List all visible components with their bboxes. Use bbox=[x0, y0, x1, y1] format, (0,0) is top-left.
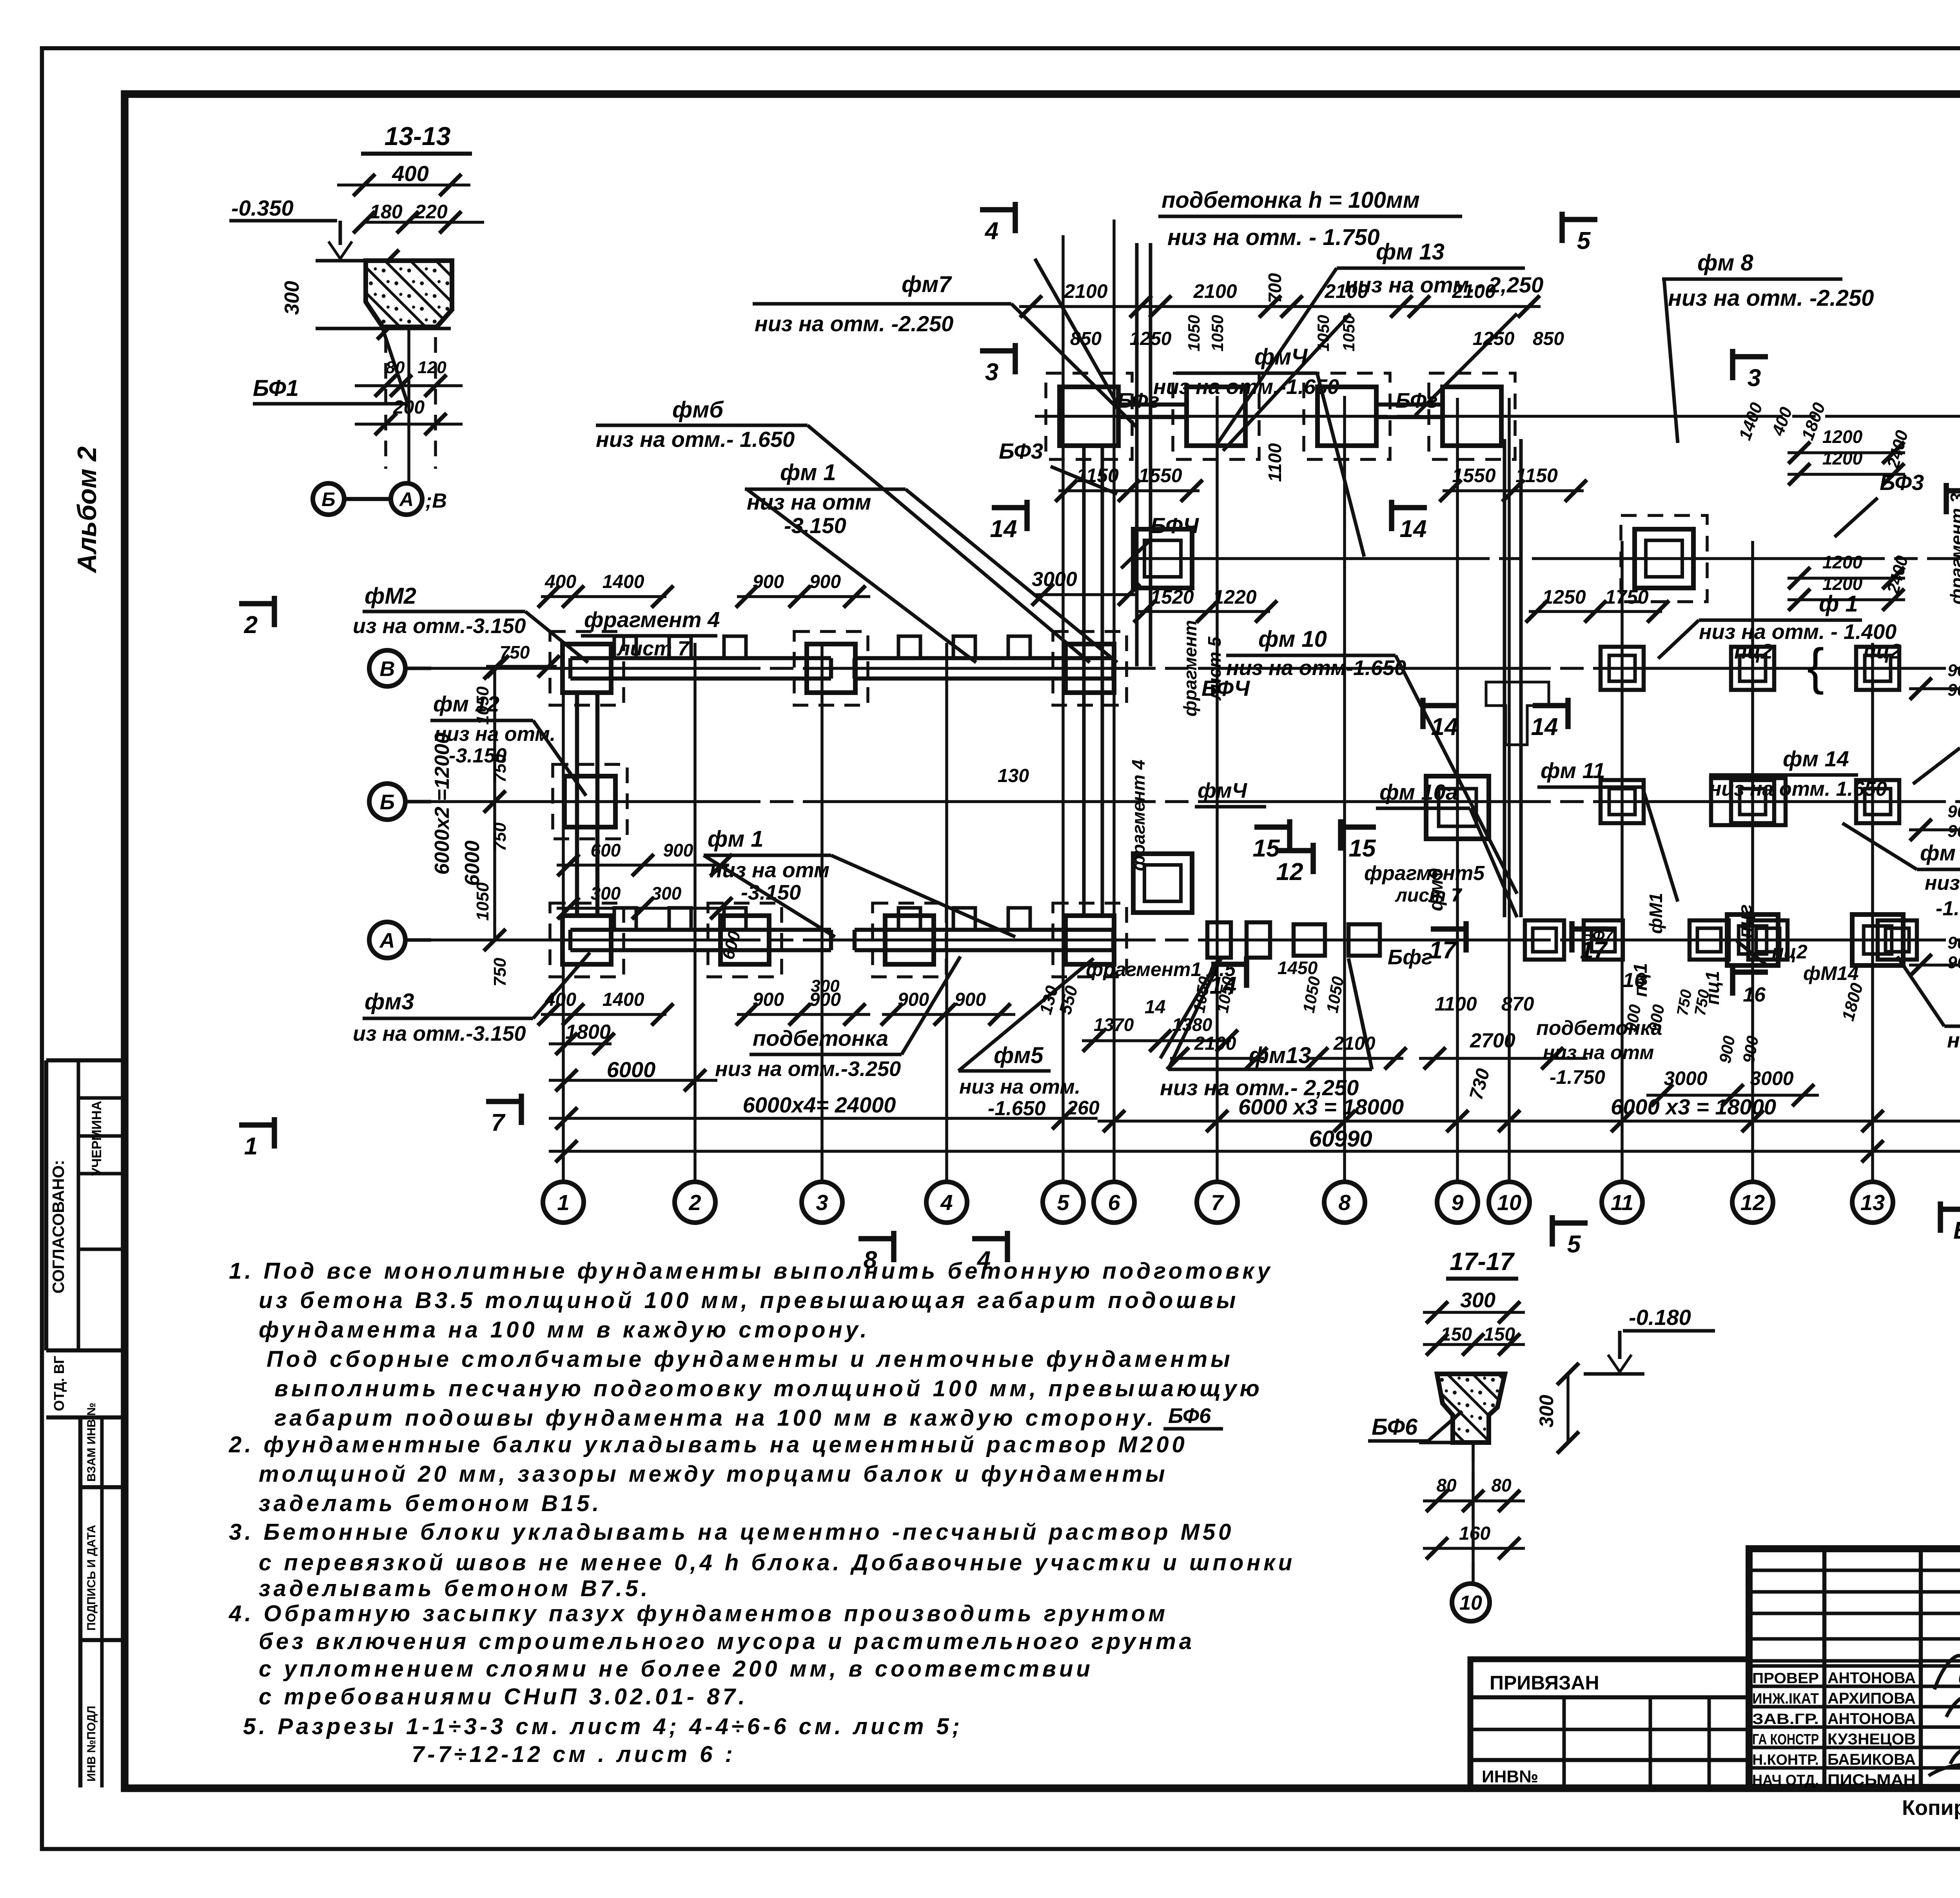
svg-text:фм 13: фм 13 bbox=[1376, 239, 1445, 265]
svg-text:160: 160 bbox=[1459, 1523, 1490, 1544]
svg-text:подбетонка: подбетонка bbox=[1536, 1017, 1662, 1040]
row Г squares bbox=[1133, 529, 1192, 588]
svg-text:750: 750 bbox=[490, 822, 510, 851]
svg-text:низ на отм.- 2,250: низ на отм.- 2,250 bbox=[1345, 272, 1543, 297]
svg-text:900: 900 bbox=[753, 989, 784, 1010]
svg-text:5: 5 bbox=[1567, 1231, 1581, 1258]
svg-text:3000: 3000 bbox=[1750, 1067, 1793, 1089]
svg-text:В: В bbox=[380, 657, 395, 680]
svg-text:с перевязкой швов не менее: с перевязкой швов не менее 0,4 h блока. … bbox=[259, 1550, 1295, 1575]
svg-text:лист 5: лист 5 bbox=[1204, 636, 1225, 701]
svg-text:1220: 1220 bbox=[1213, 586, 1256, 608]
svg-text:1050: 1050 bbox=[1314, 315, 1332, 351]
svg-text:заделывать бетоном В7.5.: заделывать бетоном В7.5. bbox=[259, 1576, 650, 1601]
svg-text:14: 14 bbox=[1210, 972, 1237, 999]
svg-text:низ на отм. -1.400: низ на отм. -1.400 bbox=[1947, 1029, 1960, 1052]
svg-text:УЧЕРМИНА: УЧЕРМИНА bbox=[89, 1101, 104, 1176]
column circles bbox=[543, 1182, 584, 1223]
svg-text:4: 4 bbox=[940, 1190, 953, 1215]
svg-text:ПИСЬМАН: ПИСЬМАН bbox=[1828, 1771, 1916, 1789]
svg-text:14: 14 bbox=[1531, 713, 1558, 740]
svg-text:БФ6: БФ6 bbox=[1168, 1404, 1211, 1428]
svg-text:пц2: пц2 bbox=[1863, 640, 1902, 663]
svg-text:1: 1 bbox=[244, 1133, 258, 1160]
big blocks left wing bbox=[563, 644, 611, 693]
svg-text:5: 5 bbox=[1577, 227, 1591, 254]
svg-text:ПРИВЯЗАН: ПРИВЯЗАН bbox=[1490, 1672, 1599, 1694]
svg-text:низ на отм.: низ на отм. bbox=[1925, 872, 1960, 895]
svg-text:400: 400 bbox=[544, 989, 576, 1010]
svg-text:НАЧ ОТД.: НАЧ ОТД. bbox=[1752, 1772, 1819, 1789]
svg-text:4: 4 bbox=[984, 218, 998, 245]
svg-text:600: 600 bbox=[591, 840, 621, 860]
svg-text:2700: 2700 bbox=[1470, 1029, 1515, 1052]
svg-text:фмб: фмб bbox=[672, 397, 724, 423]
svg-text:750: 750 bbox=[490, 958, 510, 987]
svg-text:габарит подошвы фундамента на: габарит подошвы фундамента на 100 мм в к… bbox=[274, 1405, 1156, 1431]
right rows В/Б/А small squares bbox=[1601, 647, 1644, 690]
svg-text:-0.350: -0.350 bbox=[231, 196, 294, 220]
svg-text:900: 900 bbox=[1947, 933, 1960, 953]
svg-text:13: 13 bbox=[1860, 1190, 1885, 1215]
svg-text:900: 900 bbox=[663, 840, 693, 860]
svg-text:1200: 1200 bbox=[1822, 448, 1863, 468]
svg-text:1200: 1200 bbox=[1822, 426, 1863, 447]
svg-text:фм 12: фм 12 bbox=[433, 691, 499, 716]
svg-text:низ на отм. -2.250: низ на отм. -2.250 bbox=[1668, 285, 1874, 311]
svg-text:870: 870 bbox=[1501, 993, 1534, 1015]
svg-text:фм 10: фм 10 bbox=[1258, 626, 1327, 652]
left wing foundations row В strip bbox=[570, 656, 831, 660]
svg-text:3: 3 bbox=[985, 359, 998, 386]
svg-text:17-17: 17-17 bbox=[1450, 1247, 1515, 1276]
svg-text:подбетонка h = 100мм: подбетонка h = 100мм bbox=[1161, 187, 1420, 213]
svg-text:из на отм.-3.150: из на отм.-3.150 bbox=[353, 614, 526, 638]
svg-text:ф 1: ф 1 bbox=[1819, 591, 1858, 617]
svg-text:Под сборные столбчатые фундаме: Под сборные столбчатые фундаменты и лент… bbox=[267, 1346, 1233, 1372]
svg-text:7-7÷12-12 см . лист 6 :: 7-7÷12-12 см . лист 6 : bbox=[412, 1742, 736, 1767]
svg-text:ИНВ№: ИНВ№ bbox=[1482, 1767, 1538, 1786]
svg-text:фМ2: фМ2 bbox=[365, 583, 416, 609]
svg-text:1400: 1400 bbox=[603, 572, 644, 592]
svg-text:фм 1: фм 1 bbox=[708, 826, 764, 852]
svg-text:14: 14 bbox=[1431, 713, 1458, 740]
svg-text:300: 300 bbox=[281, 281, 303, 315]
col5/6 verticals bbox=[1082, 447, 1086, 917]
svg-text:фрагмент: фрагмент bbox=[1180, 620, 1200, 717]
svg-text:1100: 1100 bbox=[1435, 993, 1477, 1015]
svg-text:14: 14 bbox=[990, 515, 1017, 543]
svg-text:БФ1: БФ1 bbox=[253, 376, 299, 401]
svg-text:8: 8 bbox=[1338, 1190, 1351, 1215]
svg-text:6000: 6000 bbox=[461, 840, 484, 886]
svg-text:1050: 1050 bbox=[1339, 315, 1358, 351]
title block bbox=[1749, 1549, 1960, 1787]
svg-text:низ на отм.- 2,250: низ на отм.- 2,250 bbox=[1160, 1075, 1359, 1100]
svg-text:1050: 1050 bbox=[1208, 315, 1227, 351]
svg-text:фмЧ: фмЧ bbox=[1198, 779, 1248, 802]
svg-text:Б: Б bbox=[380, 790, 395, 814]
svg-text:6000 х3 = 18000: 6000 х3 = 18000 bbox=[1611, 1094, 1776, 1119]
svg-text:фм 8: фм 8 bbox=[1697, 250, 1753, 276]
svg-text:130: 130 bbox=[998, 766, 1029, 786]
svg-text:выполнить песчаную подготовку: выполнить песчаную подготовку толщиной 1… bbox=[274, 1376, 1263, 1401]
svg-text:низ на отм. - 1.750: низ на отм. - 1.750 bbox=[1167, 225, 1380, 250]
svg-text:А: А bbox=[399, 488, 414, 510]
svg-text:фм5: фм5 bbox=[994, 1043, 1044, 1068]
svg-text:А: А bbox=[379, 929, 395, 952]
circles 13-13 bbox=[313, 483, 344, 515]
svg-text:1450: 1450 bbox=[1278, 958, 1318, 978]
plan axis lines bbox=[408, 667, 1960, 670]
svg-text:ОТД. ВГ: ОТД. ВГ bbox=[51, 1356, 67, 1411]
svg-text:1200: 1200 bbox=[1822, 552, 1863, 572]
svg-text:фм 15: фм 15 bbox=[1920, 840, 1960, 865]
svg-text:1550: 1550 bbox=[1138, 465, 1182, 486]
svg-text:без включения строительного: без включения строительного мусора и рас… bbox=[259, 1629, 1195, 1654]
svg-text:2100: 2100 bbox=[1194, 1033, 1236, 1054]
svg-text:3. Бетонные блоки укладыват: 3. Бетонные блоки укладывать на цементно… bbox=[229, 1519, 1234, 1545]
svg-text:2100: 2100 bbox=[1452, 280, 1495, 302]
svg-text:толщиной 20 мм, зазоры между: толщиной 20 мм, зазоры между торцами бал… bbox=[259, 1461, 1168, 1487]
svg-text:ГА КОНСТР: ГА КОНСТР bbox=[1752, 1731, 1819, 1748]
svg-text:СОГЛАСОВАНО:: СОГЛАСОВАНО: bbox=[49, 1160, 67, 1294]
svg-text:400: 400 bbox=[392, 161, 428, 186]
svg-text:16: 16 bbox=[1623, 969, 1646, 992]
svg-text:из на отм.-3.150: из на отм.-3.150 bbox=[353, 1022, 526, 1045]
svg-text:фм 10а: фм 10а bbox=[1379, 780, 1458, 804]
svg-text:Б: Б bbox=[1953, 1217, 1960, 1244]
svg-text:5: 5 bbox=[1057, 1190, 1069, 1215]
svg-text:низ на отм.: низ на отм. bbox=[959, 1076, 1080, 1098]
svg-text:5. Разрезы 1-1÷3-3 см. лист: 5. Разрезы 1-1÷3-3 см. лист 4; 4-4÷6-6 с… bbox=[243, 1714, 963, 1739]
svg-text:заделать бетоном В15.: заделать бетоном В15. bbox=[259, 1491, 602, 1516]
svg-text:3000: 3000 bbox=[1032, 568, 1077, 591]
svg-text:6000: 6000 bbox=[607, 1057, 656, 1082]
svg-text:1250: 1250 bbox=[1542, 586, 1586, 608]
svg-text:17: 17 bbox=[1429, 937, 1457, 964]
svg-text:АРХИПОВА: АРХИПОВА bbox=[1828, 1690, 1916, 1707]
svg-text:2: 2 bbox=[244, 611, 258, 639]
svg-text:фрагмент 4: фрагмент 4 bbox=[584, 607, 720, 632]
svg-text:из бетона В3.5 толщиной 100 мм: из бетона В3.5 толщиной 100 мм, превышаю… bbox=[259, 1288, 1239, 1313]
row Д squares bbox=[1060, 387, 1118, 446]
svg-text:6000х4= 24000: 6000х4= 24000 bbox=[743, 1092, 896, 1117]
svg-text:АНТОНОВА: АНТОНОВА bbox=[1828, 1710, 1916, 1727]
svg-text:{: { bbox=[1807, 638, 1824, 695]
svg-text:3: 3 bbox=[816, 1190, 828, 1215]
svg-text:60990: 60990 bbox=[1309, 1126, 1372, 1152]
svg-text:фМ1: фМ1 bbox=[1646, 893, 1666, 934]
svg-text:БФг: БФг bbox=[1396, 389, 1438, 412]
svg-text:300: 300 bbox=[591, 883, 621, 904]
svg-text:900: 900 bbox=[1947, 802, 1960, 821]
svg-text:фмЧ: фмЧ bbox=[1254, 344, 1308, 370]
svg-text:фрагмент5: фрагмент5 bbox=[1364, 862, 1485, 885]
svg-text:фм 11: фм 11 bbox=[1541, 758, 1605, 783]
svg-text:900: 900 bbox=[1947, 661, 1960, 680]
svg-text:фм7: фм7 bbox=[902, 272, 952, 297]
svg-text:300: 300 bbox=[811, 976, 840, 996]
svg-text:12: 12 bbox=[1276, 858, 1303, 885]
svg-text:220: 220 bbox=[414, 201, 448, 223]
svg-text:ИНВ №ПОДЛ: ИНВ №ПОДЛ bbox=[85, 1706, 98, 1782]
svg-text:1: 1 bbox=[557, 1190, 569, 1215]
sec marks plan bbox=[1013, 202, 1018, 233]
svg-text:БФ3: БФ3 bbox=[999, 439, 1043, 463]
svg-text:-1.650: -1.650 bbox=[988, 1097, 1046, 1120]
svg-text:300: 300 bbox=[652, 883, 682, 904]
svg-text:1. Под все монолитные фундаме: 1. Под все монолитные фундаменты выполни… bbox=[229, 1258, 1273, 1284]
svg-text:1050: 1050 bbox=[473, 882, 492, 921]
svg-text:низ на отм.- 1.650: низ на отм.- 1.650 bbox=[596, 427, 795, 452]
svg-text:с требованиями СНиП 3.02.01-: с требованиями СНиП 3.02.01- 87. bbox=[259, 1684, 748, 1709]
svg-text:-3.150: -3.150 bbox=[449, 744, 507, 767]
sec marks bottom bbox=[891, 1231, 897, 1262]
left stamp fields bbox=[46, 1058, 125, 1063]
svg-text:ВЗАМ ИНВ №: ВЗАМ ИНВ № bbox=[85, 1403, 98, 1482]
svg-text:2. фундаментные балки уклады: 2. фундаментные балки укладывать на цеме… bbox=[229, 1432, 1188, 1457]
svg-text:КУЗНЕЦОВ: КУЗНЕЦОВ bbox=[1828, 1731, 1916, 1748]
svg-text:2100: 2100 bbox=[1324, 280, 1368, 302]
svg-text:80: 80 bbox=[1491, 1475, 1512, 1495]
svg-text:1250: 1250 bbox=[1473, 328, 1515, 349]
svg-text:-0.180: -0.180 bbox=[1629, 1305, 1691, 1330]
svg-text:4. Обратную засыпку пазух ф: 4. Обратную засыпку пазух фундаментов пр… bbox=[229, 1601, 1168, 1626]
svg-text:низ на отм.-3.250: низ на отм.-3.250 bbox=[715, 1057, 901, 1081]
svg-text:ПРОВЕР: ПРОВЕР bbox=[1752, 1670, 1819, 1687]
mid verticals 9/10 bbox=[1503, 439, 1506, 917]
svg-text:ПОДПИСЬ И ДАТА: ПОДПИСЬ И ДАТА bbox=[85, 1525, 98, 1631]
signatures bbox=[1935, 1642, 1960, 1780]
svg-text:850: 850 bbox=[1070, 328, 1102, 349]
svg-text:10: 10 bbox=[1497, 1190, 1521, 1215]
svg-text:низ на отм-1.650: низ на отм-1.650 bbox=[1226, 656, 1406, 680]
svg-text:фм 14: фм 14 bbox=[1783, 746, 1849, 771]
svg-text:900: 900 bbox=[753, 572, 784, 592]
svg-text:Б: Б bbox=[321, 488, 335, 510]
svg-text:1100: 1100 bbox=[1265, 443, 1285, 482]
svg-text:фм 1: фм 1 bbox=[780, 460, 836, 485]
svg-text:11: 11 bbox=[1611, 1190, 1633, 1215]
svg-text:фундамента на 100 мм в каждую: фундамента на 100 мм в каждую сторону. bbox=[259, 1317, 870, 1343]
svg-text:низ на отм: низ на отм bbox=[1543, 1042, 1654, 1063]
svg-text:850: 850 bbox=[1533, 328, 1564, 349]
svg-text:2: 2 bbox=[688, 1190, 701, 1215]
svg-text:14: 14 bbox=[1145, 997, 1165, 1018]
svg-text:900: 900 bbox=[809, 572, 841, 592]
svg-text:2100: 2100 bbox=[1063, 280, 1107, 302]
svg-text:3: 3 bbox=[1748, 365, 1761, 392]
column lines bbox=[562, 643, 565, 1182]
svg-text:900: 900 bbox=[898, 989, 929, 1010]
svg-text:120: 120 bbox=[417, 358, 446, 377]
svg-text:Копировал: Коршунова: Копировал: Коршунова bbox=[1902, 1796, 1960, 1820]
svg-text:;В: ;В bbox=[425, 490, 447, 512]
svg-text:7: 7 bbox=[491, 1109, 506, 1136]
svg-text:400: 400 bbox=[544, 572, 576, 592]
svg-text:300: 300 bbox=[1535, 1395, 1557, 1428]
col1 vertical strip bbox=[575, 694, 579, 917]
svg-text:-1.750: -1.750 bbox=[1550, 1066, 1605, 1088]
row A right squares bbox=[1525, 920, 1564, 960]
svg-text:700: 700 bbox=[1265, 273, 1285, 303]
svg-text:с уплотнением слоями не бол: с уплотнением слоями не более 200 мм, в … bbox=[259, 1656, 1093, 1682]
svg-text:300: 300 bbox=[1460, 1288, 1495, 1312]
verticals col5-6 bundle bbox=[1135, 243, 1139, 666]
svg-text:БАБИКОВА: БАБИКОВА bbox=[1828, 1751, 1916, 1768]
фм13 bottom trapezoid leaders V bbox=[1160, 958, 1219, 1058]
svg-text:Бфг: Бфг bbox=[1388, 945, 1433, 969]
svg-text:14: 14 bbox=[1400, 515, 1427, 543]
row circles left bbox=[369, 650, 405, 686]
svg-text:900: 900 bbox=[1947, 953, 1960, 972]
svg-text:подбетонка: подбетонка bbox=[753, 1026, 888, 1051]
svg-text:Н.КОНТР.: Н.КОНТР. bbox=[1752, 1752, 1819, 1768]
svg-text:6: 6 bbox=[1108, 1190, 1120, 1215]
svg-text:-1.650: -1.650 bbox=[1936, 897, 1960, 920]
svg-text:БФ6: БФ6 bbox=[1372, 1414, 1418, 1440]
svg-text:АНТОНОВА: АНТОНОВА bbox=[1828, 1669, 1916, 1687]
svg-text:10: 10 bbox=[1459, 1592, 1482, 1615]
svg-text:низ на отм. -2.250: низ на отм. -2.250 bbox=[755, 311, 953, 336]
svg-text:БФ3: БФ3 bbox=[1880, 470, 1924, 495]
svg-text:12: 12 bbox=[1740, 1190, 1765, 1215]
svg-text:ЗАВ.ГР.: ЗАВ.ГР. bbox=[1752, 1711, 1819, 1727]
svg-text:8: 8 bbox=[864, 1247, 877, 1274]
svg-text:1400: 1400 bbox=[603, 989, 644, 1010]
svg-text:ИНЖ.IКАТ: ИНЖ.IКАТ bbox=[1752, 1691, 1819, 1707]
svg-text:7: 7 bbox=[1211, 1190, 1224, 1215]
svg-text:15: 15 bbox=[1349, 835, 1376, 862]
svg-text:1050: 1050 bbox=[1185, 315, 1203, 351]
attach table bbox=[1470, 1659, 1749, 1787]
svg-text:16: 16 bbox=[1743, 983, 1766, 1006]
H shape near col 9 bbox=[1486, 682, 1549, 745]
svg-text:2100: 2100 bbox=[1193, 280, 1237, 302]
svg-text:900: 900 bbox=[955, 989, 986, 1010]
mid foundation Б row bbox=[1133, 854, 1192, 913]
svg-text:фм3: фм3 bbox=[365, 989, 414, 1014]
misc small rects row A mid bbox=[1294, 924, 1325, 956]
svg-text:9: 9 bbox=[1451, 1190, 1463, 1215]
svg-text:4: 4 bbox=[976, 1247, 991, 1274]
svg-text:Альбом 2: Альбом 2 bbox=[72, 446, 102, 574]
svg-text:13-13: 13-13 bbox=[385, 122, 451, 151]
svg-text:15: 15 bbox=[1253, 835, 1280, 862]
svg-text:лист 7: лист 7 bbox=[1395, 885, 1463, 906]
